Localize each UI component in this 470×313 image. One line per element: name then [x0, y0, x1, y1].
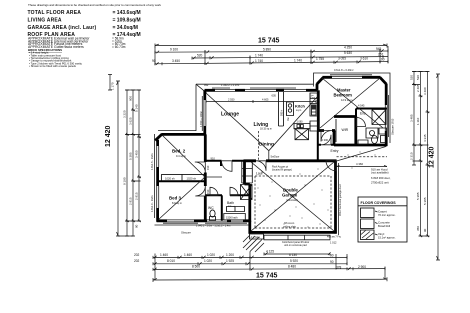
svg-text:Kitch: Kitch	[295, 103, 306, 108]
svg-text:1 845.2 - 3.6m · 1.2x1.2 - 1.4: 1 845.2 - 3.6m · 1.2x1.2 - 1.4m	[196, 225, 230, 228]
room label Laur	[256, 171, 264, 175]
master wing outside dim text	[334, 68, 354, 72]
svg-text:15 745: 15 745	[256, 273, 278, 280]
svg-text:945: 945	[376, 47, 382, 51]
svg-text:90: 90	[423, 228, 427, 232]
door laundry arc	[256, 161, 266, 171]
rotated window label bed2 left	[150, 153, 154, 170]
svg-text:520: 520	[197, 53, 203, 57]
svg-text:6 818 360 door,: 6 818 360 door,	[371, 176, 391, 180]
svg-text:2 550: 2 550	[228, 98, 235, 102]
window master right	[385, 105, 388, 131]
svg-text:1.8x1.0 - 1/2m: 1.8x1.0 - 1/2m	[150, 195, 154, 212]
svg-text:Dw: Dw	[287, 117, 290, 121]
kitchen corner pantry X box	[295, 129, 309, 140]
area table: garage area row	[28, 25, 138, 31]
svg-text:Bath: Bath	[227, 201, 234, 205]
svg-text:1 343.2 + 2.1m²: 1 343.2 + 2.1m²	[221, 83, 239, 87]
dimension bottom row3	[153, 265, 385, 271]
wall bath-wc top	[205, 194, 250, 196]
svg-text:4 360: 4 360	[356, 162, 363, 166]
svg-text:3 490: 3 490	[423, 87, 427, 95]
window lounge top 2	[245, 89, 276, 92]
window wing bottom 2	[207, 219, 227, 222]
svg-text:Obscure 1915: Obscure 1915	[391, 118, 395, 135]
wall wir left vertical	[333, 131, 336, 146]
svg-text:Lounge: Lounge	[221, 112, 239, 118]
dim 1 012	[327, 235, 342, 244]
wall bed2 chamfer	[155, 134, 162, 140]
room label Bed 3	[169, 195, 182, 204]
bath tub box	[224, 214, 246, 221]
garage concrete speckle dots	[258, 152, 376, 228]
svg-text:Concrete: Concrete	[378, 221, 390, 225]
svg-text:Bed. 2: Bed. 2	[172, 148, 186, 153]
door master arc	[321, 131, 332, 142]
svg-text:910: 910	[206, 165, 210, 170]
porch dim 4 360	[337, 162, 388, 167]
dimension bottom 4 125 garage	[264, 250, 331, 256]
window gaps (white over walls with thin glass lines)	[156, 76, 388, 223]
svg-text:4 345: 4 345	[423, 134, 427, 142]
svg-text:3 450: 3 450	[172, 59, 180, 63]
svg-text:1 460: 1 460	[160, 253, 168, 257]
hip line entry porch	[337, 147, 387, 162]
door hall arc	[222, 161, 233, 172]
wall left exterior	[156, 140, 159, 222]
svg-text:= 109.8sq/M: = 109.8sq/M	[113, 17, 141, 23]
svg-text:5 385: 5 385	[416, 192, 420, 200]
door front arc	[326, 161, 336, 171]
svg-text:2750x922 unit: 2750x922 unit	[371, 180, 389, 184]
svg-text:9 100: 9 100	[170, 48, 178, 52]
hip line kitchen corner to dining valley	[269, 97, 317, 151]
wall wc-bath divider	[221, 195, 223, 221]
dimension bottom row1	[134, 253, 347, 259]
nook dim 2 300	[322, 138, 329, 142]
svg-text:Bedroom: Bedroom	[334, 93, 353, 98]
window lounge top 1	[215, 89, 235, 92]
svg-text:90: 90	[330, 253, 334, 257]
wall wir-ens divider	[354, 117, 357, 146]
room label Bed 2	[172, 148, 186, 157]
svg-text:1 020: 1 020	[204, 259, 212, 263]
ens towel/vanity blocks	[358, 128, 387, 145]
rotated garage door label	[338, 184, 342, 216]
svg-text:935 set: 935 set	[228, 205, 236, 208]
svg-text:12.9 sq m: 12.9 sq m	[341, 98, 352, 102]
obscure label bottom	[181, 231, 191, 235]
wall master chamfer left	[317, 77, 323, 84]
concrete hatch patch	[243, 235, 264, 252]
svg-text:Carpet: Carpet	[378, 209, 387, 213]
svg-text:9 190: 9 190	[123, 177, 127, 185]
room label Entry	[331, 149, 339, 153]
kitchen oven box	[287, 102, 294, 121]
hip lines garage X	[251, 162, 334, 231]
wc cistern	[210, 217, 216, 221]
wall wing bottom	[157, 221, 251, 223]
svg-text:520: 520	[416, 75, 420, 80]
legend box floor coverings	[358, 197, 407, 242]
svg-text:90: 90	[381, 57, 385, 61]
eave line garage bottom	[264, 235, 330, 240]
wall master chamfer right	[380, 77, 386, 84]
wall master wing top	[323, 75, 381, 78]
garage ceiling note	[283, 222, 297, 228]
svg-text:5 630: 5 630	[344, 51, 352, 55]
wall hall-garage left	[245, 161, 250, 222]
dashed porch edge	[337, 156, 388, 158]
svg-text:76.1m² approx.: 76.1m² approx.	[378, 213, 396, 217]
dimension left row4	[135, 90, 141, 228]
eave line wing bottom	[155, 224, 250, 226]
svg-text:520: 520	[410, 75, 414, 80]
svg-text:1 060: 1 060	[297, 121, 304, 124]
svg-text:= 34.0sq/M: = 34.0sq/M	[113, 25, 138, 31]
rotated window label bed3 left	[150, 195, 154, 212]
svg-text:2 310: 2 310	[410, 152, 414, 160]
wall robes bed2	[158, 174, 206, 181]
window lounge left	[203, 100, 206, 126]
svg-text:1020 sh: 1020 sh	[165, 176, 175, 180]
wall wir-hall top horizontal	[318, 129, 335, 132]
svg-text:2 495: 2 495	[416, 84, 420, 92]
dashed garage ceiling inset	[255, 176, 331, 228]
svg-text:910: 910	[211, 157, 216, 161]
approximate perimeter rows	[28, 37, 126, 49]
wall bed2 right / hall	[204, 134, 207, 181]
svg-text:Dining: Dining	[259, 141, 274, 147]
wall garage left lower step	[248, 221, 251, 234]
room label Ens	[360, 111, 366, 115]
svg-text:1 170: 1 170	[111, 82, 115, 90]
svg-text:1500 bath: 1500 bath	[226, 215, 238, 219]
area table: living area row	[28, 17, 141, 23]
svg-text:ceiling slats: ceiling slats	[283, 226, 297, 229]
dimension witness extension lines	[118, 46, 429, 280]
room label Kitch	[295, 103, 306, 112]
svg-text:Bed 3: Bed 3	[169, 195, 182, 200]
svg-text:460 aw 7 Fry: 460 aw 7 Fry	[327, 235, 342, 238]
eave line left side	[155, 96, 203, 218]
svg-text:Pant: Pant	[311, 96, 316, 99]
ens door arc	[357, 118, 366, 127]
porch notes right	[371, 167, 391, 184]
wall lounge top	[205, 88, 318, 90]
svg-text:8.9 sq m: 8.9 sq m	[172, 201, 182, 205]
roof access note	[272, 166, 292, 172]
svg-text:350: 350	[416, 226, 420, 231]
svg-text:Garage: Garage	[282, 193, 298, 198]
wall master right	[386, 84, 388, 146]
wall hall east upper / linen	[205, 161, 252, 183]
svg-text:202: 202	[134, 253, 140, 257]
area table: total floor area row	[28, 10, 141, 16]
room label WIR	[342, 128, 349, 132]
svg-text:90: 90	[330, 260, 334, 264]
svg-text:5 890: 5 890	[263, 48, 271, 52]
svg-text:1 740: 1 740	[294, 58, 302, 62]
dimension left row2	[123, 90, 129, 236]
header tiny disclaimer text line	[28, 3, 162, 7]
wall lounge left	[203, 90, 206, 134]
bath vanity	[227, 207, 245, 212]
svg-text:910: 910	[206, 189, 210, 194]
svg-text:= 143.6sq/M: = 143.6sq/M	[113, 10, 141, 16]
dimension top main 15 745	[155, 38, 387, 48]
svg-text:1 755: 1 755	[316, 57, 324, 61]
svg-text:FLOOR COVERINGS: FLOOR COVERINGS	[361, 201, 397, 205]
eave line master wing	[314, 73, 391, 87]
svg-text:(concrete): (concrete)	[286, 198, 298, 202]
wall lounge chamfer window	[196, 84, 207, 93]
wir shelves	[335, 119, 337, 142]
room label Bath	[227, 201, 236, 208]
dimension right row3	[416, 72, 429, 238]
room label Living	[254, 122, 272, 130]
door wc arc	[210, 187, 218, 195]
svg-text:900 fr: 900 fr	[280, 110, 283, 116]
room label Dining	[259, 141, 274, 147]
svg-text:605: 605	[272, 93, 277, 97]
dimension left 1 170 line	[108, 75, 115, 91]
svg-text:942: 942	[204, 83, 209, 87]
door bed2 arc	[195, 162, 206, 173]
svg-text:1 925: 1 925	[226, 259, 234, 263]
svg-text:600: 600	[129, 96, 133, 101]
dimension bottom row2	[134, 259, 347, 265]
svg-text:LIVING AREA: LIVING AREA	[28, 17, 62, 23]
wc pan	[210, 210, 215, 217]
dimension right row2	[416, 72, 422, 238]
svg-text:90: 90	[135, 224, 139, 228]
kitchen pantry column right	[310, 93, 317, 116]
room label WC	[208, 206, 214, 210]
svg-text:1 740: 1 740	[255, 59, 263, 63]
svg-text:3 485: 3 485	[410, 114, 414, 122]
svg-text:These drawings and dimensions: These drawings and dimensions to be chec…	[28, 3, 162, 7]
specifications heading	[28, 48, 62, 52]
wall garage right	[334, 161, 337, 234]
svg-text:202: 202	[134, 259, 140, 263]
svg-text:Vinyl: Vinyl	[378, 232, 385, 236]
lounge wall top outside dims	[204, 83, 239, 87]
svg-text:WIR: WIR	[342, 128, 349, 132]
svg-text:sq.m: sq.m	[296, 109, 301, 112]
svg-text:5 140: 5 140	[135, 104, 139, 112]
door bed3 arc	[195, 186, 205, 196]
svg-text:2 300: 2 300	[322, 138, 329, 142]
ens vanity	[366, 128, 378, 138]
svg-text:1 460: 1 460	[184, 253, 192, 257]
wall garage top	[244, 159, 337, 162]
kitchen right bench	[310, 121, 318, 131]
eave line master right	[389, 86, 391, 143]
legend concrete row	[361, 219, 375, 229]
wall master left	[316, 84, 319, 91]
svg-text:3 625: 3 625	[129, 117, 133, 125]
svg-text:WC: WC	[208, 206, 214, 210]
dimension top row2	[155, 46, 388, 54]
svg-text:GARAGE AREA (incl. Laur): GARAGE AREA (incl. Laur)	[28, 25, 97, 31]
room label Lounge	[221, 112, 239, 118]
specification bullet notes	[29, 51, 83, 69]
svg-text:3 220: 3 220	[123, 110, 127, 118]
dimension left main 12 420	[105, 81, 120, 236]
dimension right main 12 420	[429, 74, 441, 260]
legend vinyl row	[361, 230, 375, 240]
dimension top row3	[192, 51, 388, 60]
window wing bottom 3	[231, 219, 243, 222]
window bed3 left	[156, 186, 159, 208]
wall entry west vertical	[317, 131, 319, 161]
svg-text:1 200: 1 200	[226, 253, 234, 257]
legend carpet row	[361, 208, 375, 218]
svg-text:1 740: 1 740	[255, 53, 263, 57]
svg-text:0.6x1.8 + 0.49m²: 0.6x1.8 + 0.49m²	[334, 68, 354, 72]
svg-text:3 450: 3 450	[135, 150, 139, 158]
window kitchen top	[284, 89, 306, 92]
wall bed3 right / hall	[204, 182, 207, 221]
wall garage bottom	[249, 231, 337, 234]
svg-text:Laur: Laur	[256, 171, 264, 175]
eave line garage right	[338, 163, 340, 235]
svg-text:1.8x1.5 - 1/2m: 1.8x1.5 - 1/2m	[150, 153, 154, 170]
kitchen bench with sink	[294, 124, 310, 129]
ens wc pan	[372, 136, 378, 144]
window bed2 left	[156, 146, 159, 167]
wall bed2 top	[161, 133, 206, 136]
valley stub dining to hall wall	[268, 151, 270, 160]
lounge inside dim line	[206, 98, 316, 103]
hip line lounge to dining valley	[206, 93, 269, 151]
eave line top lounge	[196, 84, 314, 131]
wall ens top	[356, 109, 387, 117]
svg-text:Ens: Ens	[360, 111, 366, 115]
dimension right row1	[410, 72, 416, 166]
svg-text:9.4 sq m: 9.4 sq m	[176, 154, 186, 158]
window master top	[332, 76, 362, 79]
svg-text:5 385: 5 385	[423, 197, 427, 205]
svg-text:3 055: 3 055	[338, 57, 346, 61]
svg-text:1 110: 1 110	[416, 117, 420, 125]
svg-text:1020 sh: 1020 sh	[187, 176, 197, 180]
wir dim 4 545	[358, 104, 365, 108]
svg-text:unit on concrete pad: unit on concrete pad	[284, 244, 307, 247]
wall kitchen right vertical	[317, 90, 320, 131]
kitchen fridge recess lines	[279, 92, 284, 126]
window wing bottom 1	[167, 219, 194, 222]
svg-text:2 915: 2 915	[135, 192, 139, 200]
svg-text:(located in garage): (located in garage)	[272, 168, 292, 171]
wall wir top	[334, 115, 357, 118]
svg-text:2 915: 2 915	[129, 197, 133, 205]
hip lines master X	[320, 78, 383, 128]
area table: roof plan area row	[28, 32, 141, 38]
svg-text:18.15 sq m: 18.15 sq m	[260, 127, 272, 130]
hip lines bed2 wing	[159, 136, 223, 220]
wall entry bottom porch	[318, 160, 337, 162]
svg-text:5 920: 5 920	[290, 259, 298, 263]
svg-text:1 814 + 1/2m²: 1 814 + 1/2m²	[199, 111, 203, 127]
svg-text:8 480: 8 480	[288, 265, 296, 269]
AL elev marker	[250, 234, 264, 239]
svg-text:8 500: 8 500	[192, 265, 200, 269]
door entry-dining arc	[321, 135, 331, 145]
svg-text:4512 Sectional garage door: 4512 Sectional garage door	[338, 184, 342, 216]
svg-text:6 130: 6 130	[289, 253, 297, 257]
door bath arc	[230, 187, 238, 195]
svg-text:15 745: 15 745	[258, 38, 280, 45]
bottom wall window labels	[196, 225, 230, 228]
svg-text:12 420: 12 420	[105, 125, 112, 147]
svg-text:TOTAL FLOOR AREA: TOTAL FLOOR AREA	[28, 10, 82, 16]
svg-text:Obscure: Obscure	[181, 231, 191, 235]
svg-text:Broad Roll: Broad Roll	[378, 224, 391, 228]
wall ens-wir bottom	[334, 144, 387, 147]
rotated window label lounge left	[199, 111, 203, 127]
rotated obscure label ens right	[391, 118, 395, 135]
dimension left row3	[129, 90, 135, 236]
svg-text:= 60.73m: = 60.73m	[112, 45, 126, 49]
wall entry-dining	[318, 144, 335, 146]
svg-text:4 545: 4 545	[358, 104, 365, 108]
svg-text:8 010: 8 010	[167, 259, 175, 263]
svg-text:• Shown to be fitted with ensu: • Shown to be fitted with ensuite panels	[29, 64, 76, 68]
room label Master Bedroom	[334, 87, 353, 102]
garage door note below	[282, 241, 309, 247]
svg-text:3 610: 3 610	[360, 56, 368, 60]
svg-text:12 420: 12 420	[429, 146, 436, 168]
svg-text:Entry: Entry	[331, 149, 339, 153]
dimension bottom main 15 745	[153, 273, 387, 282]
room label Double Garage	[282, 187, 298, 202]
svg-text:4 250: 4 250	[344, 46, 352, 50]
laundry tub box with X	[241, 185, 253, 200]
svg-text:5 385: 5 385	[129, 152, 133, 160]
ens shower box	[372, 110, 386, 125]
svg-text:1 012: 1 012	[330, 241, 337, 245]
svg-text:SetDoor: SetDoor	[271, 155, 280, 158]
svg-text:4 605: 4 605	[262, 98, 269, 102]
svg-text:(not available): (not available)	[371, 171, 389, 175]
dashed kitchen floor boundary	[257, 131, 259, 160]
dimension top row4	[152, 56, 388, 65]
svg-text:1 020: 1 020	[207, 253, 215, 257]
solid door note	[271, 155, 280, 158]
svg-text:15.1m² approx.: 15.1m² approx.	[378, 236, 396, 240]
